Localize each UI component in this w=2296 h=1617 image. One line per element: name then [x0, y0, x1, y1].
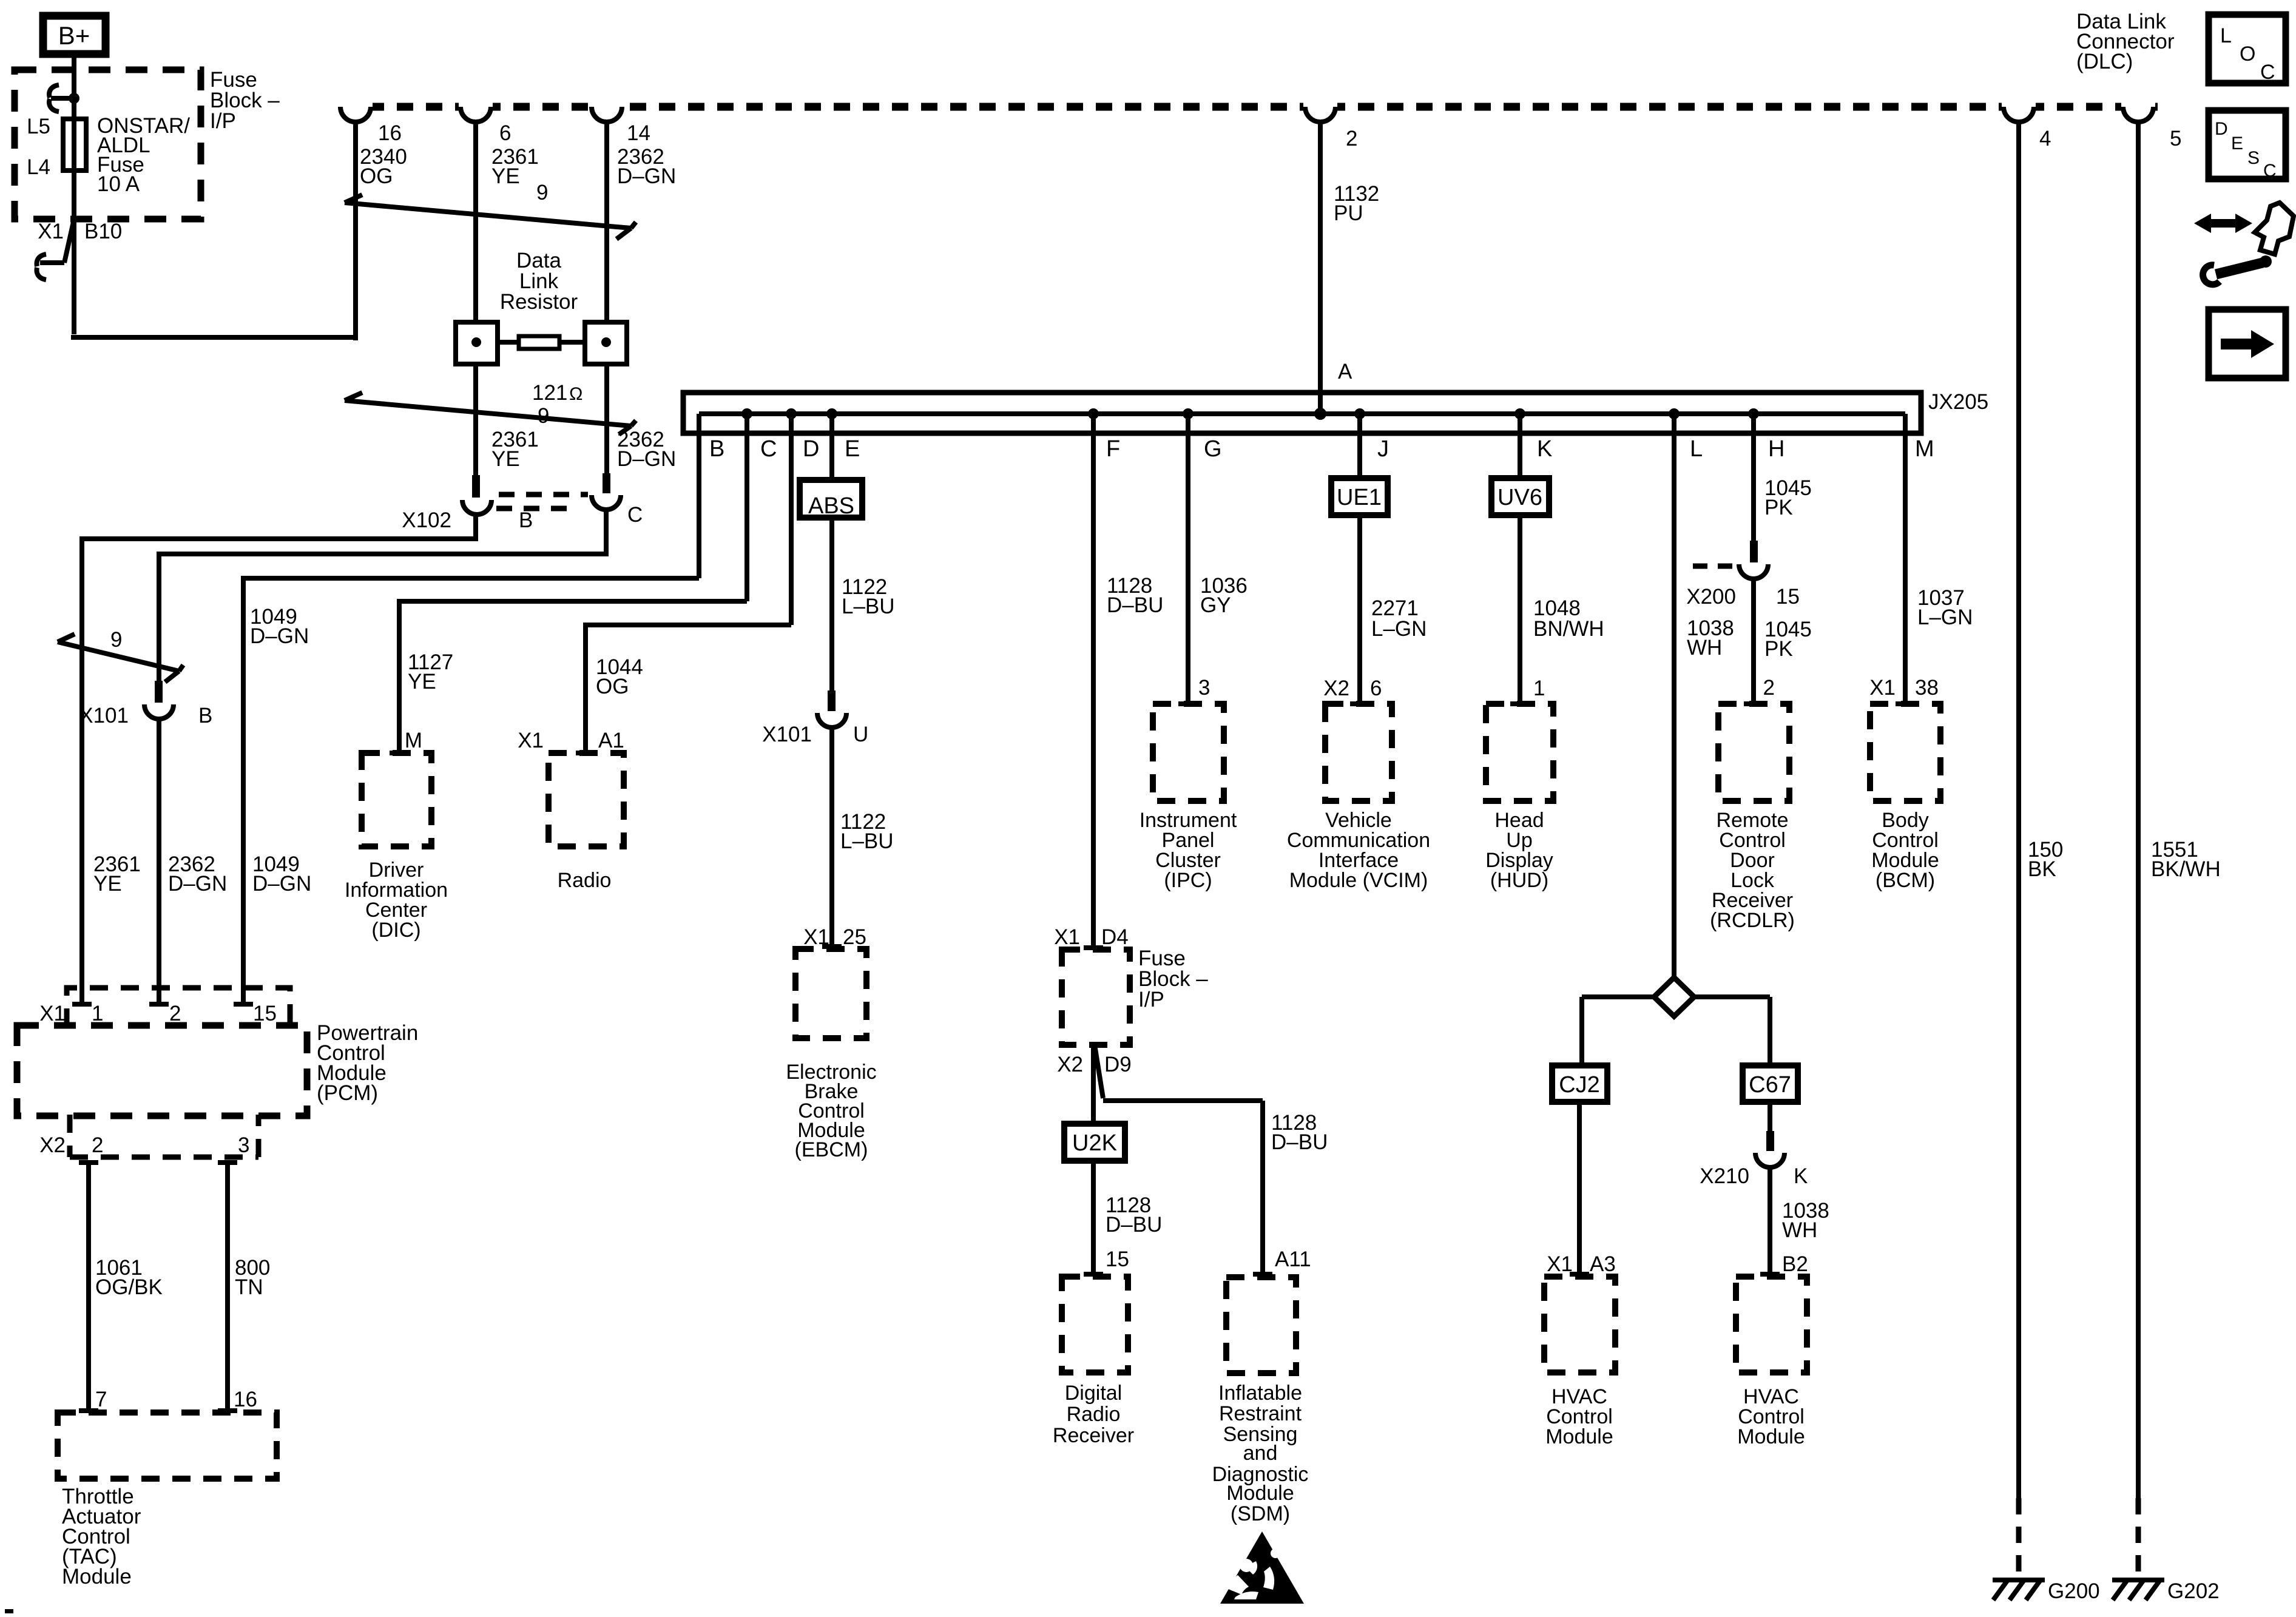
- svg-text:K: K: [1537, 436, 1552, 462]
- svg-text:3: 3: [1198, 676, 1210, 700]
- svg-text:JX205: JX205: [1928, 390, 1988, 414]
- svg-text:15: 15: [1106, 1247, 1129, 1271]
- svg-text:Resistor: Resistor: [500, 290, 578, 314]
- svg-text:A: A: [1338, 360, 1352, 383]
- svg-text:WH: WH: [1782, 1218, 1817, 1242]
- svg-text:(RCDLR): (RCDLR): [1710, 909, 1795, 932]
- svg-text:25: 25: [843, 925, 866, 949]
- svg-text:L: L: [2220, 24, 2232, 47]
- svg-text:Receiver: Receiver: [1053, 1424, 1134, 1447]
- svg-text:(PCM): (PCM): [317, 1081, 378, 1105]
- svg-text:B: B: [198, 704, 212, 727]
- svg-text:OG: OG: [360, 164, 393, 188]
- svg-text:A11: A11: [1275, 1247, 1311, 1271]
- svg-text:O: O: [2240, 42, 2255, 66]
- svg-text:2: 2: [1346, 127, 1357, 150]
- svg-text:4: 4: [2039, 127, 2051, 150]
- svg-text:Inflatable: Inflatable: [1218, 1382, 1302, 1405]
- svg-text:121: 121: [532, 381, 567, 405]
- svg-text:15: 15: [1776, 585, 1800, 609]
- svg-text:U: U: [853, 723, 868, 746]
- svg-text:D4: D4: [1101, 925, 1129, 949]
- svg-text:OG/BK: OG/BK: [95, 1275, 163, 1299]
- svg-text:15: 15: [253, 1002, 277, 1025]
- svg-text:L–BU: L–BU: [840, 829, 894, 853]
- svg-text:D–GN: D–GN: [250, 624, 309, 648]
- svg-text:D–BU: D–BU: [1271, 1130, 1328, 1154]
- svg-text:I/P: I/P: [1138, 988, 1164, 1011]
- svg-text:Module: Module: [1226, 1482, 1294, 1505]
- svg-text:G: G: [1204, 436, 1222, 462]
- svg-text:X1: X1: [1054, 925, 1080, 949]
- svg-text:B: B: [519, 508, 533, 532]
- svg-text:C: C: [627, 503, 643, 527]
- svg-text:OG: OG: [596, 675, 629, 698]
- svg-text:X210: X210: [1700, 1164, 1749, 1188]
- svg-text:X1: X1: [38, 220, 64, 243]
- svg-text:PU: PU: [1334, 201, 1363, 225]
- svg-text:BK: BK: [2028, 857, 2056, 881]
- svg-text:9: 9: [110, 628, 122, 652]
- svg-text:D–BU: D–BU: [1107, 593, 1163, 617]
- svg-text:(DLC): (DLC): [2076, 50, 2133, 73]
- svg-text:X1: X1: [803, 925, 829, 949]
- svg-text:(HUD): (HUD): [1490, 869, 1548, 892]
- svg-text:WH: WH: [1687, 636, 1722, 660]
- svg-text:Restraint: Restraint: [1219, 1402, 1302, 1425]
- svg-text:UE1: UE1: [1337, 485, 1382, 510]
- svg-text:Module: Module: [1545, 1425, 1613, 1448]
- svg-text:1: 1: [92, 1002, 103, 1025]
- svg-text:2: 2: [92, 1133, 103, 1157]
- svg-text:U2K: U2K: [1072, 1130, 1117, 1156]
- svg-text:D–GN: D–GN: [168, 872, 227, 896]
- svg-text:TN: TN: [235, 1275, 263, 1299]
- svg-text:Module: Module: [62, 1565, 132, 1588]
- svg-text:1: 1: [1533, 677, 1545, 700]
- svg-text:PK: PK: [1764, 637, 1793, 661]
- svg-text:5: 5: [2170, 127, 2181, 150]
- svg-text:14: 14: [627, 121, 650, 145]
- svg-text:2: 2: [169, 1002, 181, 1025]
- svg-text:PK: PK: [1764, 496, 1793, 519]
- svg-text:9: 9: [536, 181, 548, 204]
- svg-text:X102: X102: [402, 508, 451, 532]
- svg-text:B+: B+: [58, 21, 90, 50]
- svg-text:B: B: [709, 436, 724, 462]
- svg-text:G202: G202: [2167, 1579, 2220, 1603]
- svg-text:C: C: [2260, 61, 2275, 84]
- svg-text:X1: X1: [518, 729, 544, 752]
- svg-text:X101: X101: [79, 704, 129, 727]
- svg-text:Radio: Radio: [1067, 1403, 1121, 1426]
- svg-text:D–BU: D–BU: [1106, 1213, 1162, 1237]
- svg-text:X1: X1: [39, 1002, 66, 1025]
- svg-text:10 A: 10 A: [97, 172, 140, 196]
- svg-text:(DIC): (DIC): [371, 919, 420, 942]
- svg-text:(IPC): (IPC): [1164, 869, 1212, 892]
- svg-text:7: 7: [95, 1388, 107, 1411]
- svg-text:X1: X1: [1869, 676, 1896, 700]
- svg-text:6: 6: [499, 121, 511, 145]
- svg-text:F: F: [1106, 436, 1120, 462]
- svg-text:16: 16: [378, 121, 402, 145]
- svg-text:E: E: [845, 436, 860, 462]
- svg-text:6: 6: [1370, 677, 1382, 700]
- svg-text:D: D: [2215, 119, 2228, 139]
- svg-text:C: C: [760, 436, 777, 462]
- svg-text:D9: D9: [1104, 1053, 1132, 1076]
- svg-text:(BCM): (BCM): [1876, 869, 1935, 892]
- svg-text:38: 38: [1915, 676, 1939, 700]
- svg-text:X2: X2: [1323, 677, 1349, 700]
- svg-text:Module: Module: [1737, 1425, 1805, 1448]
- svg-text:M: M: [1915, 436, 1934, 462]
- svg-text:X2: X2: [1057, 1053, 1083, 1076]
- svg-text:D: D: [803, 436, 819, 462]
- svg-text:BN/WH: BN/WH: [1533, 617, 1604, 641]
- svg-text:L4: L4: [27, 155, 50, 179]
- svg-text:X101: X101: [762, 723, 812, 746]
- svg-text:M: M: [405, 729, 422, 752]
- svg-text:X2: X2: [39, 1133, 66, 1157]
- svg-text:E: E: [2231, 133, 2243, 154]
- svg-text:H: H: [1768, 436, 1784, 462]
- svg-text:L–BU: L–BU: [842, 595, 895, 618]
- svg-text:ABS: ABS: [808, 493, 854, 519]
- svg-text:I/P: I/P: [210, 109, 236, 133]
- svg-text:B10: B10: [84, 220, 122, 243]
- svg-text:A3: A3: [1590, 1252, 1616, 1276]
- svg-text:G200: G200: [2048, 1579, 2100, 1603]
- svg-text:9: 9: [538, 404, 549, 428]
- svg-text:(EBCM): (EBCM): [795, 1138, 868, 1161]
- svg-text:A1: A1: [598, 729, 624, 752]
- svg-text:Radio: Radio: [558, 869, 612, 892]
- svg-text:D–GN: D–GN: [252, 872, 311, 896]
- svg-text:BK/WH: BK/WH: [2151, 857, 2221, 881]
- svg-text:C: C: [2263, 161, 2277, 181]
- svg-text:YE: YE: [491, 447, 520, 471]
- svg-text:X200: X200: [1686, 585, 1736, 609]
- svg-text:16: 16: [234, 1388, 257, 1411]
- svg-text:L–GN: L–GN: [1917, 606, 1973, 629]
- svg-text:YE: YE: [408, 670, 436, 694]
- svg-text:UV6: UV6: [1497, 485, 1542, 510]
- svg-text:B2: B2: [1782, 1252, 1808, 1276]
- svg-text:D–GN: D–GN: [617, 447, 676, 471]
- svg-text:and: and: [1243, 1442, 1278, 1465]
- svg-text:Ω: Ω: [569, 384, 582, 404]
- svg-text:X1: X1: [1547, 1252, 1573, 1276]
- svg-text:S: S: [2247, 148, 2260, 168]
- svg-text:K: K: [1794, 1164, 1808, 1188]
- svg-text:YE: YE: [491, 164, 520, 188]
- svg-text:GY: GY: [1200, 593, 1231, 617]
- svg-text:3: 3: [238, 1133, 249, 1157]
- svg-text:L–GN: L–GN: [1371, 617, 1427, 641]
- svg-text:Module (VCIM): Module (VCIM): [1289, 869, 1428, 892]
- svg-text:(SDM): (SDM): [1231, 1502, 1290, 1525]
- svg-text:Digital: Digital: [1065, 1382, 1122, 1405]
- svg-text:C67: C67: [1749, 1072, 1791, 1098]
- svg-text:D–GN: D–GN: [617, 164, 676, 188]
- svg-text:2: 2: [1763, 676, 1775, 700]
- svg-text:YE: YE: [93, 872, 122, 896]
- svg-text:L5: L5: [27, 115, 50, 138]
- svg-text:CJ2: CJ2: [1559, 1072, 1600, 1098]
- svg-text:J: J: [1377, 436, 1389, 462]
- svg-text:L: L: [1690, 436, 1703, 462]
